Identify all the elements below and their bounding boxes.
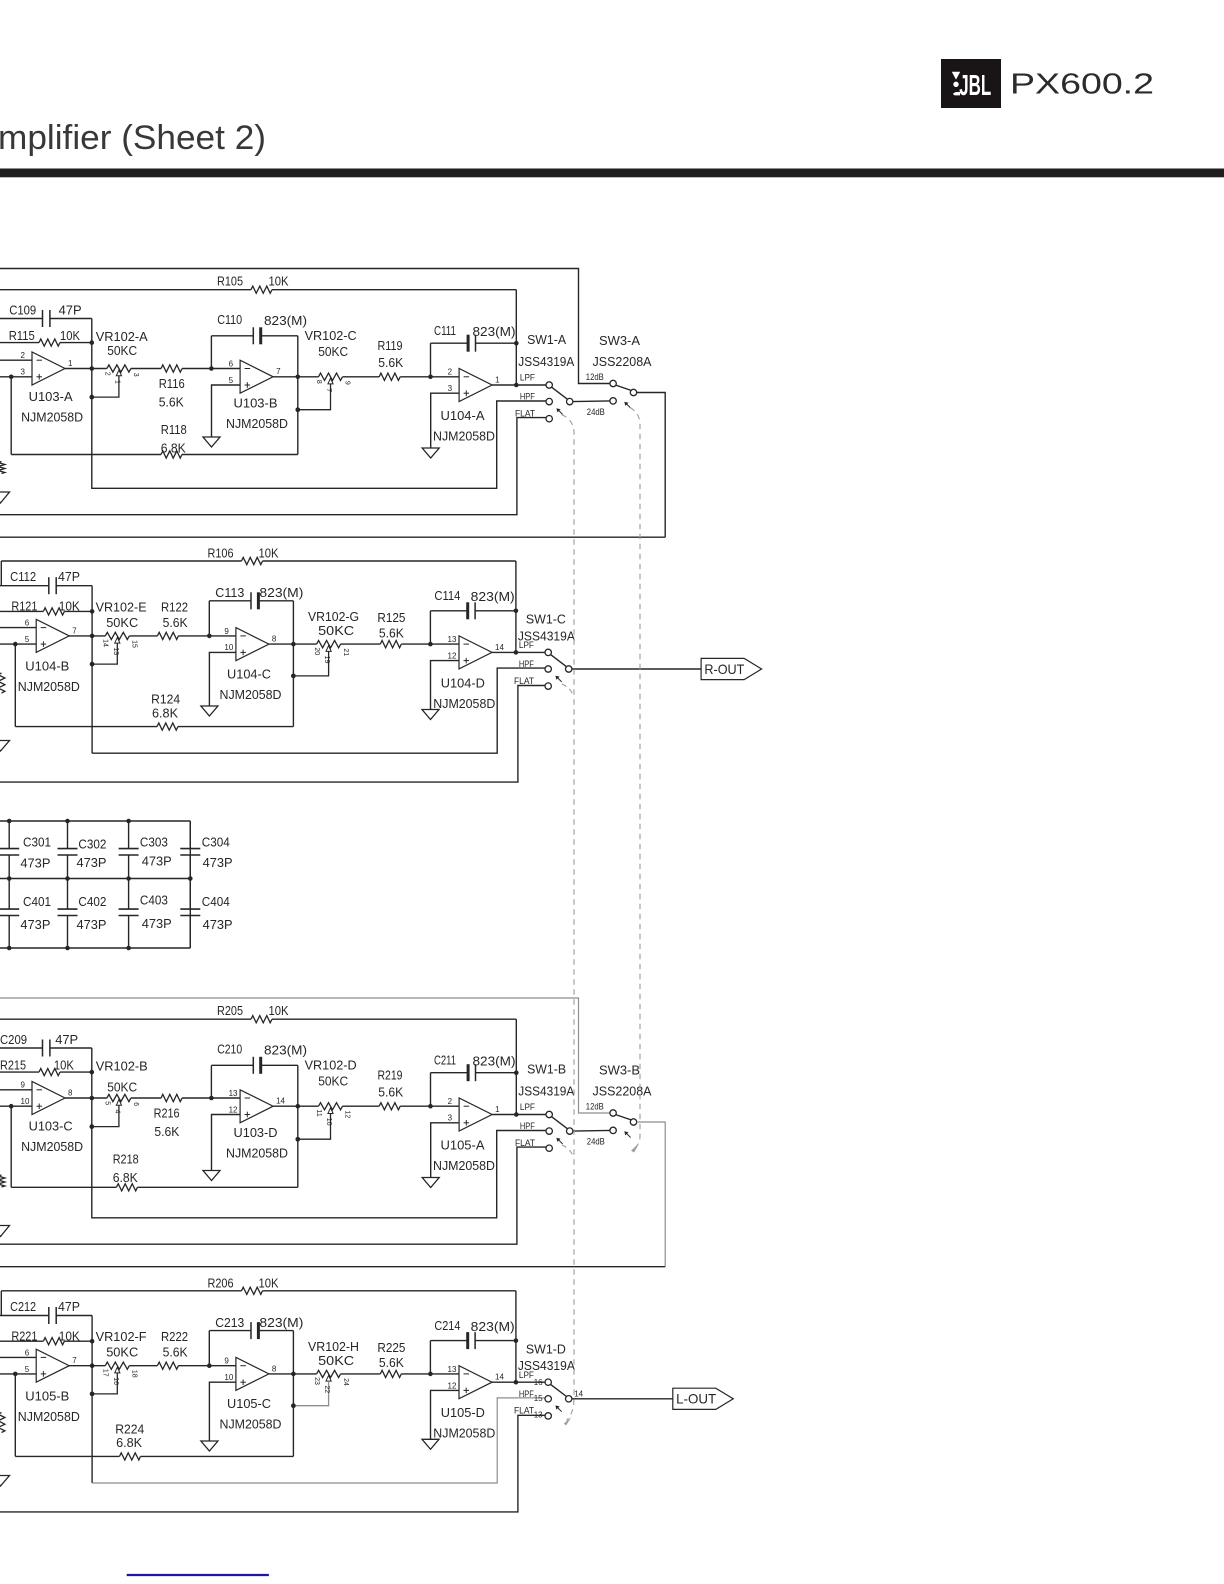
op-amp U105-A xyxy=(459,1098,492,1131)
ground at U104-C xyxy=(201,706,218,716)
svg-text:C212: C212 xyxy=(10,1299,36,1314)
svg-text:10: 10 xyxy=(224,643,233,652)
svg-text:C114: C114 xyxy=(434,588,460,603)
svg-text:U104-C: U104-C xyxy=(227,666,271,681)
op-amp U103-D xyxy=(240,1090,273,1123)
svg-text:8: 8 xyxy=(272,1364,277,1373)
wire U104-C + input to ground xyxy=(209,652,236,706)
potentiometer VR102-H wiper xyxy=(326,1375,331,1381)
resistor R216 xyxy=(161,1094,182,1101)
junction on + input xyxy=(13,1372,18,1377)
wire bottom return xyxy=(0,536,665,538)
op-amp U103-A xyxy=(32,352,65,385)
svg-text:14: 14 xyxy=(574,1390,583,1399)
wire SW1-D pole to L-OUT xyxy=(572,1398,673,1400)
svg-text:473P: 473P xyxy=(142,853,172,868)
wire VR102-G wiper return xyxy=(293,651,328,676)
capacitor C112 wire xyxy=(0,585,49,587)
svg-text:C113: C113 xyxy=(215,585,244,600)
wire U103-A non-inverting input xyxy=(0,376,32,378)
switch SW1-A LPF contact xyxy=(546,382,552,388)
resistor R225 xyxy=(380,1370,401,1377)
capacitor C110 loop wire xyxy=(210,336,212,369)
wire main feedback vertical / HPF return xyxy=(92,319,546,489)
svg-text:7: 7 xyxy=(72,626,77,635)
wire R216 to op2 xyxy=(182,1097,240,1099)
junction at VR102-C wiper return xyxy=(296,407,301,412)
svg-text:50KC: 50KC xyxy=(107,343,137,358)
svg-text:14: 14 xyxy=(276,1097,285,1106)
switch SW1-B HPF contact xyxy=(546,1128,552,1134)
svg-text:JSS4319A: JSS4319A xyxy=(518,1084,574,1099)
svg-text:823(M): 823(M) xyxy=(471,1319,515,1334)
wire U105-B output xyxy=(69,1365,105,1367)
ground at U104-D xyxy=(422,710,439,720)
wire VR102-B wiper return xyxy=(92,1105,119,1126)
resistor R105 xyxy=(251,286,272,293)
wire pot to R216 xyxy=(131,1097,161,1099)
wire U105-D output to LPF xyxy=(492,1381,545,1383)
ground at U105-D xyxy=(422,1439,439,1449)
partial resistor at left edge xyxy=(0,1413,5,1433)
junction on + input xyxy=(13,642,18,647)
ground at U104-A xyxy=(422,448,439,458)
capacitor C113 loop wire xyxy=(208,601,210,636)
partial ground at left edge xyxy=(0,492,10,503)
svg-text:10: 10 xyxy=(224,1373,233,1382)
svg-text:NJM2058D: NJM2058D xyxy=(220,1417,282,1432)
svg-text:VR102-B: VR102-B xyxy=(96,1059,148,1074)
wire U104-A + input to ground xyxy=(431,393,459,448)
wire FLAT return xyxy=(0,686,545,783)
svg-text:HPF: HPF xyxy=(519,659,534,669)
switch SW3-B common pole contact xyxy=(630,1119,636,1125)
wire U105-B non-inverting input xyxy=(0,1373,36,1375)
svg-text:R222: R222 xyxy=(161,1329,188,1344)
resistor R206 feedback wire xyxy=(1,1290,241,1292)
junction dots on main vertical xyxy=(90,1339,95,1344)
svg-text:U103-A: U103-A xyxy=(29,389,73,404)
capacitor C110 xyxy=(252,327,254,344)
wire VR102-E wiper return xyxy=(92,643,117,664)
partial ground at left edge xyxy=(0,741,10,752)
wire U103-C non-inverting input xyxy=(0,1105,32,1107)
capacitor C112 xyxy=(48,577,50,594)
svg-text:R116: R116 xyxy=(159,376,185,391)
svg-text:9: 9 xyxy=(344,381,351,385)
resistor R105 feedback wire xyxy=(0,289,251,291)
svg-text:473P: 473P xyxy=(20,917,50,932)
junction at C-left vertical xyxy=(207,1363,212,1368)
svg-text:10K: 10K xyxy=(59,1328,80,1343)
wire FLAT return xyxy=(0,1415,545,1512)
op-amp U103-B xyxy=(240,360,273,393)
svg-text:6: 6 xyxy=(132,1102,139,1106)
svg-text:SW1-B: SW1-B xyxy=(527,1061,566,1076)
wire SW3-B pole output xyxy=(637,1122,666,1267)
junction at VR102-B wiper return xyxy=(90,1124,95,1129)
svg-text:C301: C301 xyxy=(23,835,51,850)
switch SW3-A 24dB contact xyxy=(610,398,616,404)
junction at C3-left vertical xyxy=(428,375,433,380)
wire VR102-A wiper return xyxy=(92,376,119,397)
wire pot to R116 xyxy=(131,368,161,370)
wire SW1-A pole to 24dB xyxy=(573,400,610,403)
dashed hook at SW1-C xyxy=(562,684,574,697)
svg-text:473P: 473P xyxy=(77,855,107,870)
junction at VR102-D wiper return xyxy=(296,1137,301,1142)
wire R222 to op2 xyxy=(178,1365,236,1367)
svg-text:2: 2 xyxy=(448,368,453,377)
switch SW1-A common pole contact xyxy=(567,398,573,404)
capacitor C402 branch wire xyxy=(67,879,69,910)
svg-text:VR102-A: VR102-A xyxy=(96,329,148,344)
svg-text:C211: C211 xyxy=(434,1053,456,1068)
svg-text:50KC: 50KC xyxy=(318,344,348,359)
svg-text:NJM2058D: NJM2058D xyxy=(433,1158,495,1173)
svg-text:U104-B: U104-B xyxy=(25,659,69,674)
wire VR102-H wiper return xyxy=(293,1381,328,1406)
switch SW1-D FLAT contact xyxy=(545,1413,551,1419)
svg-text:23: 23 xyxy=(313,1377,320,1385)
svg-text:17: 17 xyxy=(102,1369,109,1377)
svg-text:5.6K: 5.6K xyxy=(159,395,184,410)
resistor R215 wire xyxy=(0,1071,39,1073)
svg-text:1: 1 xyxy=(114,380,121,384)
wire FLAT return xyxy=(0,1147,546,1244)
capacitor C209 xyxy=(42,1040,44,1057)
potentiometer VR102-B wiper xyxy=(116,1100,121,1106)
svg-text:C209: C209 xyxy=(0,1032,27,1047)
svg-text:U105-B: U105-B xyxy=(25,1389,69,1404)
capacitor C214 loop wire xyxy=(429,1341,431,1374)
svg-text:NJM2058D: NJM2058D xyxy=(21,1139,83,1154)
svg-text:47P: 47P xyxy=(58,1299,80,1314)
svg-text:47P: 47P xyxy=(59,303,82,318)
svg-text:SW3-B: SW3-B xyxy=(599,1062,640,1077)
wire capacitor bank bottom rail xyxy=(0,947,190,949)
wire U105-D + input to ground xyxy=(431,1390,460,1439)
switch SW1-C HPF contact xyxy=(545,666,551,672)
wire U103-B output xyxy=(273,376,318,378)
capacitor C114 loop wire xyxy=(429,611,431,644)
capacitor C213 xyxy=(250,1322,252,1339)
svg-text:R-OUT: R-OUT xyxy=(704,661,744,677)
svg-text:U103-B: U103-B xyxy=(234,396,278,411)
potentiometer VR102-D wiper xyxy=(328,1108,333,1114)
svg-text:2: 2 xyxy=(103,372,110,376)
svg-text:5: 5 xyxy=(25,635,30,644)
svg-text:LPF: LPF xyxy=(519,1370,534,1380)
hyperlink underline at page bottom xyxy=(127,1574,269,1576)
svg-text:7: 7 xyxy=(325,388,332,392)
capacitor C109 xyxy=(42,310,44,327)
wire U103-B + input to ground xyxy=(212,385,241,437)
capacitor C301 xyxy=(0,848,19,850)
junction C at LPF vertical xyxy=(514,1070,519,1075)
potentiometer VR102-B body xyxy=(107,1094,131,1101)
junction at LPF xyxy=(514,383,519,388)
title rule xyxy=(0,169,1224,178)
partial resistor at left edge xyxy=(0,673,5,693)
svg-text:VR102-C: VR102-C xyxy=(305,328,357,343)
resistor R118 xyxy=(161,451,182,458)
wire R116 to op2 xyxy=(182,368,240,370)
svg-text:10K: 10K xyxy=(59,599,80,614)
svg-text:24dB: 24dB xyxy=(587,1136,605,1146)
svg-text:1: 1 xyxy=(68,359,73,368)
junction dots on main vertical xyxy=(90,1070,95,1075)
wire capacitor bank top rail xyxy=(0,820,190,822)
svg-text:3: 3 xyxy=(448,1114,453,1123)
resistor R121 xyxy=(43,608,64,615)
capacitor C109 wire xyxy=(0,318,43,320)
svg-text:6.8K: 6.8K xyxy=(152,705,178,720)
ground at U103-B xyxy=(203,437,220,447)
switch SW1-A arm xyxy=(552,387,568,399)
wire SW1-B pole to 24dB xyxy=(573,1129,610,1132)
svg-text:NJM2058D: NJM2058D xyxy=(226,1146,288,1161)
wire R122 to op2 xyxy=(178,635,236,637)
potentiometer VR102-C body xyxy=(319,373,343,380)
switch SW1-D arm xyxy=(551,1384,567,1396)
svg-text:10: 10 xyxy=(21,1097,30,1106)
wire main feedback vertical / HPF return xyxy=(91,586,93,754)
svg-text:16: 16 xyxy=(112,1377,119,1385)
svg-text:50KC: 50KC xyxy=(318,1353,354,1368)
dashed hook at SW1-B xyxy=(562,1145,574,1158)
svg-text:R206: R206 xyxy=(208,1275,234,1290)
svg-text:5: 5 xyxy=(103,1101,110,1105)
junction at C3-left vertical xyxy=(428,1104,433,1109)
svg-text:SW1-D: SW1-D xyxy=(526,1341,566,1356)
svg-text:C109: C109 xyxy=(9,303,36,318)
svg-text:14: 14 xyxy=(495,643,504,652)
svg-text:C111: C111 xyxy=(434,323,456,338)
wire capacitor bank middle rail xyxy=(0,878,190,880)
svg-text:823(M): 823(M) xyxy=(473,324,516,339)
svg-text:473P: 473P xyxy=(203,855,233,870)
potentiometer VR102-E body xyxy=(105,632,129,639)
svg-text:13: 13 xyxy=(229,1089,238,1098)
wire U104-B non-inverting input xyxy=(0,643,36,645)
ganged switch dashed link SW1 (A-C-B-D) xyxy=(562,415,575,1421)
potentiometer VR102-E wiper xyxy=(115,637,120,643)
svg-text:C210: C210 xyxy=(217,1041,242,1056)
svg-text:mplifier (Sheet 2): mplifier (Sheet 2) xyxy=(0,119,266,157)
output flag R-OUT xyxy=(701,658,762,679)
svg-text:LPF: LPF xyxy=(519,640,534,650)
capacitor C212 xyxy=(48,1307,50,1324)
wire U103-D output xyxy=(273,1105,318,1107)
svg-text:R225: R225 xyxy=(377,1340,405,1355)
wire pot to R225 xyxy=(341,1373,381,1375)
wire U105-C + input to ground xyxy=(209,1382,236,1441)
svg-text:12: 12 xyxy=(229,1105,238,1114)
switch SW3-B 24dB contact xyxy=(610,1127,616,1133)
switch SW1-B arm xyxy=(552,1117,568,1129)
switch SW1-D actuator arrow xyxy=(556,1406,561,1411)
svg-text:19: 19 xyxy=(323,656,330,664)
switch SW1-B actuator arrow xyxy=(557,1139,562,1144)
svg-text:50KC: 50KC xyxy=(107,1080,137,1095)
svg-text:5.6K: 5.6K xyxy=(379,625,404,640)
svg-text:6: 6 xyxy=(25,1348,30,1357)
op-amp U105-C xyxy=(236,1357,269,1390)
wire left edge vertical xyxy=(0,1291,2,1316)
resistor R221 wire xyxy=(0,1340,43,1342)
wire R124 feedback xyxy=(14,644,16,727)
svg-text:SW3-A: SW3-A xyxy=(599,333,640,348)
wire R119 to op3 xyxy=(400,376,459,378)
svg-text:50KC: 50KC xyxy=(106,1345,138,1360)
svg-text:HPF: HPF xyxy=(519,1389,534,1399)
switch SW1-C LPF contact xyxy=(545,649,551,655)
wire main feedback vertical / HPF return xyxy=(91,1316,93,1484)
svg-text:VR102-H: VR102-H xyxy=(308,1339,359,1354)
ground at U105-A xyxy=(422,1178,439,1188)
potentiometer VR102-H body xyxy=(317,1370,341,1377)
capacitor C114 xyxy=(466,602,469,619)
svg-text:L-OUT: L-OUT xyxy=(676,1391,716,1407)
wire U103-A inverting input xyxy=(0,359,32,361)
switch SW3-A actuator arrow xyxy=(625,403,630,408)
wire R118 feedback xyxy=(10,377,12,455)
wire R218 feedback xyxy=(10,1106,12,1187)
svg-text:VR102-D: VR102-D xyxy=(305,1057,357,1072)
resistor R121 wire xyxy=(0,610,43,612)
svg-text:5.6K: 5.6K xyxy=(379,1355,404,1370)
resistor R122 xyxy=(157,632,178,639)
svg-text:1: 1 xyxy=(495,375,500,384)
wire pot to R219 xyxy=(343,1105,380,1107)
svg-text:47P: 47P xyxy=(58,569,80,584)
potentiometer VR102-D body xyxy=(319,1103,343,1110)
capacitor C401 xyxy=(0,908,19,910)
op-amp U104-D xyxy=(459,636,492,669)
svg-text:8: 8 xyxy=(68,1088,73,1097)
junction at LPF xyxy=(514,1380,519,1385)
capacitor C213 loop wire xyxy=(208,1331,210,1366)
potentiometer VR102-F body xyxy=(105,1362,129,1369)
svg-text:13: 13 xyxy=(448,635,457,644)
capacitor C403 branch wire xyxy=(128,879,130,910)
potentiometer VR102-A wiper xyxy=(116,370,121,376)
resistor R219 xyxy=(379,1103,400,1110)
svg-text:9: 9 xyxy=(224,627,229,636)
svg-text:473P: 473P xyxy=(77,917,107,932)
svg-text:14: 14 xyxy=(495,1373,504,1382)
resistor R218 xyxy=(116,1184,137,1191)
svg-text:JBL: JBL xyxy=(959,70,991,102)
wire R125 to op3 xyxy=(401,643,459,645)
wire bottom return xyxy=(0,1266,665,1268)
potentiometer VR102-A body xyxy=(107,365,131,372)
svg-text:NJM2058D: NJM2058D xyxy=(433,696,495,711)
capacitor C303 xyxy=(119,848,139,850)
svg-text:12: 12 xyxy=(344,1111,351,1119)
svg-text:SW1-A: SW1-A xyxy=(527,332,566,347)
switch SW1-B LPF contact xyxy=(546,1111,552,1117)
capacitor C402 xyxy=(58,908,78,910)
svg-text:5.6K: 5.6K xyxy=(163,615,188,630)
svg-text:R205: R205 xyxy=(217,1003,243,1018)
svg-text:U105-D: U105-D xyxy=(441,1405,485,1420)
capacitor bank junction dots xyxy=(7,819,12,824)
capacitor C304 branch wire xyxy=(189,821,191,849)
resistor R116 xyxy=(161,365,182,372)
svg-text:R219: R219 xyxy=(378,1067,403,1082)
output flag L-OUT xyxy=(673,1388,734,1409)
svg-text:R106: R106 xyxy=(208,546,234,561)
switch SW3-B actuator arrow xyxy=(625,1132,630,1137)
svg-text:C302: C302 xyxy=(78,837,106,852)
switch SW1-C actuator arrow xyxy=(556,677,561,682)
partial ground at left edge xyxy=(0,1226,10,1237)
svg-text:16: 16 xyxy=(534,1378,543,1387)
svg-text:10K: 10K xyxy=(269,274,289,289)
resistor R115 xyxy=(39,339,60,346)
svg-text:9: 9 xyxy=(21,1081,26,1090)
switch SW3-B arm xyxy=(616,1115,631,1120)
svg-text:14: 14 xyxy=(102,639,109,647)
switch SW1-D common pole contact xyxy=(566,1396,572,1402)
svg-text:10K: 10K xyxy=(259,546,279,561)
potentiometer VR102-G body xyxy=(317,641,341,648)
capacitor C301 branch wire xyxy=(8,821,10,849)
svg-text:50KC: 50KC xyxy=(318,623,354,638)
switch SW1-C common pole contact xyxy=(566,666,572,672)
svg-text:JSS2208A: JSS2208A xyxy=(593,354,652,369)
svg-text:12dB: 12dB xyxy=(586,1101,604,1111)
resistor R206 xyxy=(242,1287,263,1294)
svg-text:13: 13 xyxy=(112,647,119,655)
svg-text:PX600.2: PX600.2 xyxy=(1010,69,1154,101)
svg-text:R221: R221 xyxy=(11,1328,37,1343)
svg-text:12dB: 12dB xyxy=(586,372,604,382)
svg-text:3: 3 xyxy=(132,373,139,377)
capacitor C210 xyxy=(252,1057,254,1074)
svg-text:U103-C: U103-C xyxy=(29,1119,73,1134)
svg-text:C214: C214 xyxy=(434,1318,460,1333)
svg-text:47P: 47P xyxy=(55,1032,78,1047)
svg-text:R115: R115 xyxy=(9,328,35,343)
junction C14 at LPF vertical xyxy=(514,1338,519,1343)
capacitor C214 xyxy=(466,1332,469,1349)
capacitor C113 xyxy=(250,592,252,609)
svg-text:FLAT: FLAT xyxy=(514,1406,534,1416)
svg-text:3: 3 xyxy=(448,384,453,393)
svg-text:7: 7 xyxy=(276,367,281,376)
svg-text:NJM2058D: NJM2058D xyxy=(226,416,288,431)
svg-text:50KC: 50KC xyxy=(106,615,138,630)
wire U104-B output xyxy=(69,635,105,637)
JBL logo exclamation mark xyxy=(952,72,960,80)
wire U104-B inverting input xyxy=(0,627,36,629)
svg-text:5.6K: 5.6K xyxy=(378,1084,403,1099)
svg-text:LPF: LPF xyxy=(520,1102,535,1112)
svg-text:SW1-C: SW1-C xyxy=(526,612,566,627)
wire U104-C output xyxy=(269,643,317,645)
junction at C-left vertical xyxy=(207,634,212,639)
svg-text:R125: R125 xyxy=(377,610,405,625)
resistor R222 xyxy=(157,1362,178,1369)
svg-text:NJM2058D: NJM2058D xyxy=(18,679,80,694)
svg-text:12: 12 xyxy=(448,652,457,661)
capacitor C302 branch wire xyxy=(67,821,69,849)
svg-text:C213: C213 xyxy=(215,1315,244,1330)
svg-text:C404: C404 xyxy=(202,894,230,909)
